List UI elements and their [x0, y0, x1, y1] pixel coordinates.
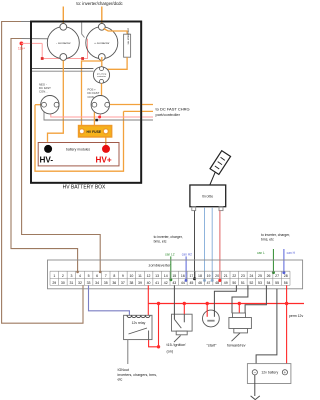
svg-text:56: 56: [284, 281, 288, 285]
svg-text:43: 43: [172, 281, 176, 285]
svg-text:can L: can L: [257, 251, 265, 255]
svg-text:zombieverter: zombieverter: [149, 263, 172, 267]
svg-text:HV FUSE: HV FUSE: [86, 130, 101, 134]
svg-text:battery modules: battery modules: [66, 147, 90, 151]
svg-text:19: 19: [207, 274, 211, 278]
svg-text:−: −: [254, 370, 257, 375]
svg-text:forward/rev: forward/rev: [227, 344, 246, 348]
svg-text:5: 5: [88, 274, 90, 278]
svg-text:33: 33: [87, 281, 91, 285]
svg-text:41: 41: [155, 281, 159, 285]
svg-text:CON...: CON...: [39, 90, 48, 94]
svg-text:21: 21: [224, 274, 228, 278]
svg-text:53: 53: [258, 281, 262, 285]
svg-text:17: 17: [189, 274, 193, 278]
svg-text:2: 2: [62, 274, 64, 278]
svg-text:etc: etc: [118, 378, 123, 382]
svg-text:port/controller: port/controller: [156, 112, 181, 117]
svg-text:20: 20: [215, 274, 219, 278]
svg-text:32: 32: [78, 281, 82, 285]
svg-text:25: 25: [258, 274, 262, 278]
svg-text:contactor: contactor: [97, 75, 106, 78]
svg-text:42: 42: [164, 281, 168, 285]
svg-text:8: 8: [113, 274, 115, 278]
svg-text:22: 22: [232, 274, 236, 278]
svg-text:throttle: throttle: [202, 194, 213, 198]
svg-text:(on): (on): [167, 349, 174, 353]
svg-text:HV-: HV-: [40, 156, 54, 165]
svg-text:34: 34: [95, 281, 99, 285]
svg-text:precharge res: precharge res: [127, 28, 131, 45]
svg-text:bms, etc: bms, etc: [261, 238, 274, 242]
svg-text:bms, etc: bms, etc: [154, 240, 167, 244]
svg-text:52: 52: [249, 281, 253, 285]
svg-text:can H: can H: [287, 251, 296, 255]
svg-text:+: +: [284, 370, 287, 375]
svg-text:15: 15: [172, 274, 176, 278]
svg-text:30: 30: [61, 281, 65, 285]
svg-text:31: 31: [69, 281, 73, 285]
svg-text:36: 36: [112, 281, 116, 285]
svg-text:1: 1: [53, 274, 55, 278]
svg-text:perm 12v: perm 12v: [289, 314, 303, 318]
svg-text:47: 47: [207, 281, 211, 285]
svg-text:55: 55: [275, 281, 279, 285]
svg-text:44: 44: [181, 281, 185, 285]
svg-text:“start”: “start”: [207, 344, 217, 348]
svg-text:23: 23: [241, 274, 245, 278]
svg-text:10: 10: [129, 274, 133, 278]
svg-text:46: 46: [198, 281, 202, 285]
svg-text:38: 38: [129, 281, 133, 285]
svg-text:12v relay: 12v relay: [132, 321, 146, 325]
svg-text:HV BATTERY BOX: HV BATTERY BOX: [63, 185, 106, 191]
svg-text:28: 28: [284, 274, 288, 278]
svg-text:to: inverter/charger/dcdc: to: inverter/charger/dcdc: [76, 1, 123, 6]
svg-text:24: 24: [249, 274, 253, 278]
svg-text:4: 4: [79, 274, 81, 278]
svg-text:to DC FAST CHRG: to DC FAST CHRG: [156, 107, 190, 112]
svg-text:7: 7: [105, 274, 107, 278]
svg-text:t15-‘ignition’: t15-‘ignition’: [167, 343, 187, 347]
svg-text:35: 35: [104, 281, 108, 285]
svg-text:13: 13: [155, 274, 159, 278]
svg-text:pre-charg: pre-charg: [97, 72, 107, 75]
svg-text:54: 54: [267, 281, 271, 285]
svg-text:26: 26: [267, 274, 271, 278]
svg-text:29: 29: [52, 281, 56, 285]
svg-text:11: 11: [138, 274, 142, 278]
svg-text:can L2: can L2: [165, 252, 175, 256]
svg-text:14: 14: [164, 274, 168, 278]
svg-text:37: 37: [121, 281, 125, 285]
svg-text:to inverter, charger,: to inverter, charger,: [261, 233, 290, 237]
svg-text:12: 12: [147, 274, 151, 278]
svg-text:40: 40: [147, 281, 151, 285]
svg-text:49: 49: [224, 281, 228, 285]
svg-text:IGNout: IGNout: [118, 368, 129, 372]
svg-text:3: 3: [70, 274, 72, 278]
svg-text:inverters, chargers, bms,: inverters, chargers, bms,: [118, 373, 158, 377]
svg-text:27: 27: [275, 274, 279, 278]
svg-text:12v battery: 12v battery: [261, 371, 278, 375]
svg-text:50: 50: [232, 281, 236, 285]
svg-text:16: 16: [181, 274, 185, 278]
svg-text:6: 6: [96, 274, 98, 278]
svg-text:HV+: HV+: [96, 156, 112, 165]
svg-text:48: 48: [215, 281, 219, 285]
svg-text:can H2: can H2: [182, 252, 192, 256]
svg-text:51: 51: [241, 281, 245, 285]
svg-text:to inverter, charger,: to inverter, charger,: [154, 235, 183, 239]
svg-text:+ contactor: + contactor: [94, 41, 109, 45]
svg-text:39: 39: [138, 281, 142, 285]
svg-text:12v+: 12v+: [18, 46, 25, 50]
svg-text:18: 18: [198, 274, 202, 278]
svg-text:9: 9: [122, 274, 124, 278]
svg-text:45: 45: [189, 281, 193, 285]
svg-text:- contactor: - contactor: [56, 41, 71, 45]
